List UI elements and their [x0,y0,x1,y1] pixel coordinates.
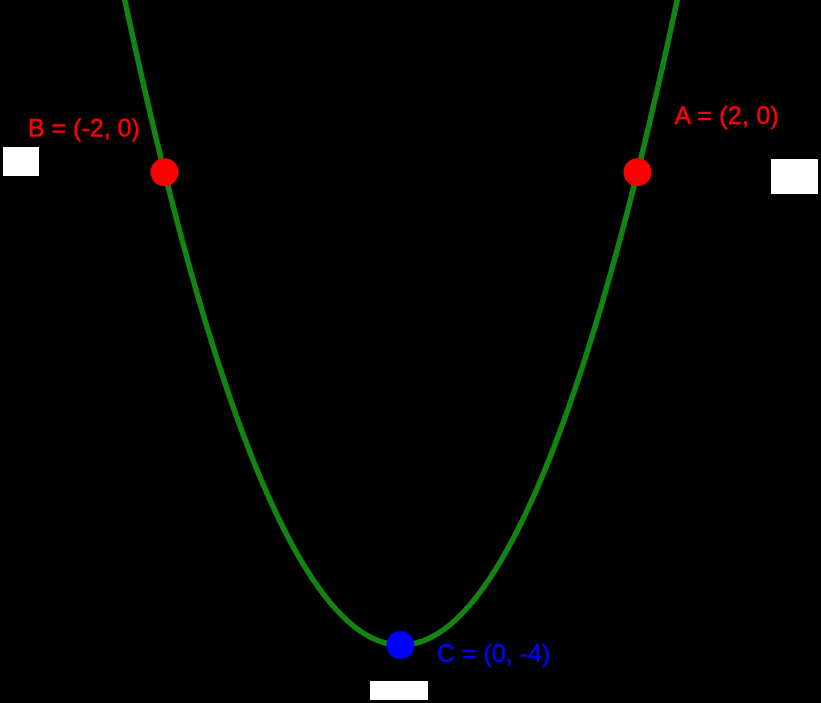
point A [624,158,652,186]
svg-text:C = (0, -4): C = (0, -4) [437,640,550,668]
point B [151,158,179,186]
parabola y = x^2 - 4 [120,0,682,645]
white box bottom [370,681,428,700]
white box right [771,159,818,194]
svg-text:B = (-2, 0): B = (-2, 0) [28,115,140,143]
svg-text:A = (2, 0): A = (2, 0) [675,102,780,130]
white box left [3,147,39,176]
point C [386,631,414,659]
